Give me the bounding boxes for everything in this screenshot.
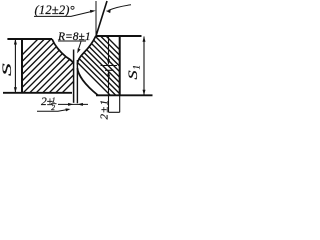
- svg-text:2±1: 2±1: [98, 99, 110, 120]
- svg-text:S: S: [126, 70, 140, 79]
- svg-text:(12±2)°: (12±2)°: [35, 3, 75, 17]
- svg-text:1: 1: [132, 65, 142, 70]
- svg-text:S: S: [0, 63, 14, 76]
- svg-text:2: 2: [51, 103, 55, 112]
